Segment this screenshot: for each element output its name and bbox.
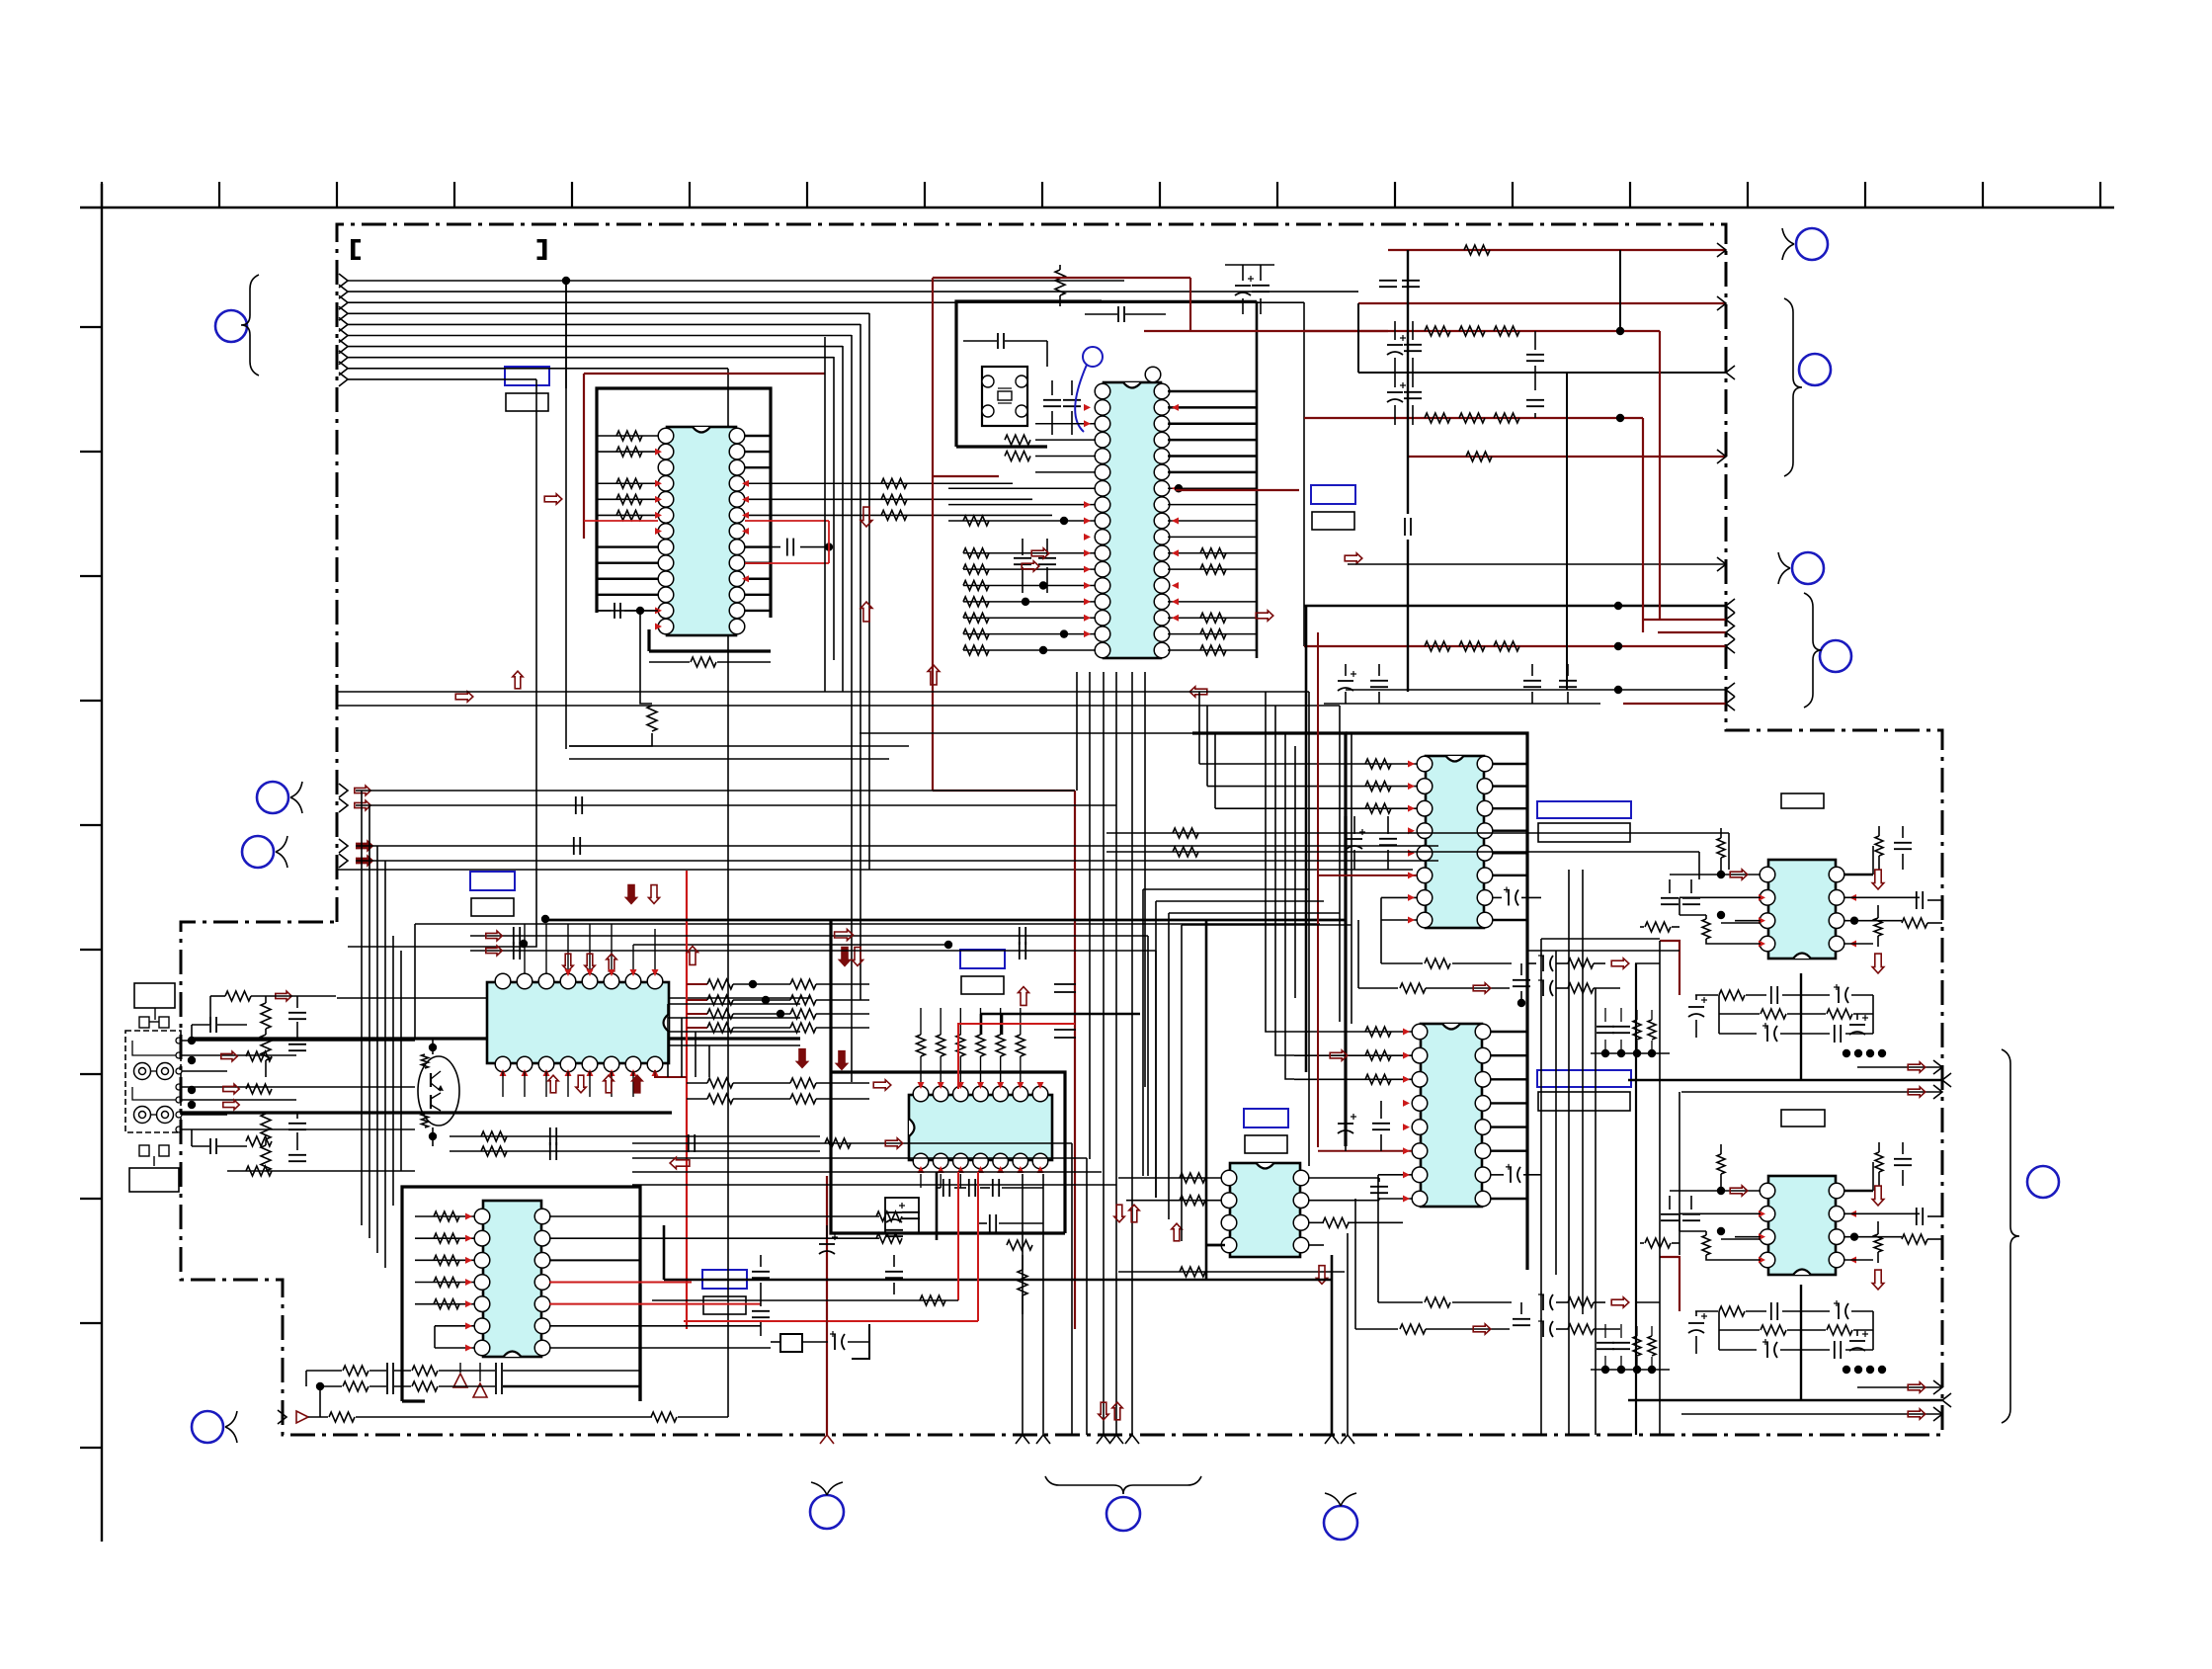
page ref circle G (right 3) xyxy=(1792,552,1824,584)
label IC4 xyxy=(960,950,1005,968)
resistor rows right of IC2 low xyxy=(1200,548,1226,558)
input stubs left-mid xyxy=(339,784,348,797)
blue hook wire xyxy=(1083,347,1103,367)
IC6 output chain xyxy=(1381,962,1423,964)
mid-right cap bank xyxy=(1597,1026,1614,1028)
page ref circle E (right 1) xyxy=(1796,228,1828,260)
IC4 bottom stubs xyxy=(920,1174,922,1188)
dots on IC2 pins xyxy=(1175,484,1183,492)
main thick audio bus xyxy=(193,1037,800,1040)
mid-right verticals xyxy=(1540,939,1542,1435)
IC5 right wires xyxy=(549,1215,879,1217)
arrows below IC3 xyxy=(548,1075,558,1093)
right output terminals lower xyxy=(1857,1386,1942,1388)
pin marks IC2 right xyxy=(1172,404,1179,411)
IC2 right wires xyxy=(1168,390,1257,392)
IC4 pin marks xyxy=(918,1082,925,1089)
servo IC U3 xyxy=(487,982,669,1063)
upper-right harness to opamps xyxy=(1106,832,1729,834)
caps right of IC5 xyxy=(752,1271,770,1273)
IC2 right bus vertical xyxy=(1256,301,1259,658)
board outline (dash-dot) xyxy=(181,224,1942,1435)
IC3 right red feed xyxy=(686,871,688,1329)
IC7 feed verticals xyxy=(1266,692,1294,1032)
IC3 pin marks xyxy=(565,969,572,976)
IC3 top wires xyxy=(524,924,526,974)
label IC10 (black) xyxy=(1781,1110,1825,1127)
page ref circle D (left bottom) xyxy=(192,1411,223,1443)
thick vertical to bottom xyxy=(1331,1255,1334,1435)
dot rows under op-amps xyxy=(1843,1049,1850,1057)
page ref circle K (bottom 2) xyxy=(1106,1497,1140,1531)
label IC7 xyxy=(1537,1070,1631,1087)
IC5 pin marks left xyxy=(465,1213,472,1220)
audio IC U6 xyxy=(1426,756,1484,928)
IC8 feed verticals xyxy=(1142,889,1144,1176)
red tri arrows below IC5 xyxy=(453,1374,467,1387)
IC2 bottom drop bundle xyxy=(1089,672,1091,1159)
IC5 left wires xyxy=(415,1215,474,1217)
wire bus top-left xyxy=(348,280,1124,282)
caps left of IC7 cluster xyxy=(1338,1123,1353,1125)
IC6 bus rectangle xyxy=(1192,733,1346,1146)
IC6 pin marks left xyxy=(1408,761,1415,768)
IC7 output chain xyxy=(1378,1301,1423,1303)
page ref circle B (left mid 1) xyxy=(257,782,288,813)
DSP IC U2 xyxy=(1104,382,1161,658)
IC5 bus rectangle xyxy=(402,1187,640,1401)
ADC IC U5 xyxy=(483,1201,541,1357)
IC2 left wires xyxy=(1035,423,1095,425)
red wire into IC4 xyxy=(958,1024,1075,1089)
center horizontal runs xyxy=(337,691,1309,693)
page ref circle I (far right) xyxy=(2027,1166,2059,1198)
page ref circle L (bottom 3) xyxy=(1324,1506,1357,1540)
caps near crystal xyxy=(997,333,999,349)
op-amp U10 cluster xyxy=(1768,1176,1836,1275)
resistors right of IC1 xyxy=(881,478,907,488)
connector feed dots xyxy=(188,1037,196,1044)
page top ruler xyxy=(80,207,2114,209)
page ref circle C (left mid 2) xyxy=(242,836,274,868)
left small box top xyxy=(134,983,175,1008)
label IC9 (black) xyxy=(1781,793,1824,808)
IC7 pin marks left xyxy=(1403,1029,1410,1036)
op-IC U1 xyxy=(667,427,736,635)
caps left of IC6 cluster xyxy=(1347,838,1362,840)
capacitor below IC1 xyxy=(614,603,615,619)
electrolytic caps top-right xyxy=(1387,344,1403,346)
page ref circle F (right 2) xyxy=(1799,354,1831,385)
pin marks IC2 left xyxy=(1084,404,1091,411)
rows below IC4 xyxy=(632,1142,1072,1144)
resistor rows left of IC2 low xyxy=(963,548,989,558)
IC4 top resistor column xyxy=(917,1035,926,1056)
left-mid long horizontals xyxy=(356,790,1075,792)
label IC3 xyxy=(470,872,515,890)
center vertical runs xyxy=(1103,672,1105,1435)
left small box bottom xyxy=(139,1145,149,1156)
label X1 area xyxy=(1311,485,1355,504)
caps cluster left of IC2 xyxy=(1014,557,1031,559)
red vertical bottom-left xyxy=(826,1176,828,1435)
thick bus above IC4 xyxy=(546,919,1346,922)
rows below transistor area xyxy=(450,1135,820,1137)
IC1 bus rectangle xyxy=(597,388,771,618)
left vertical harness xyxy=(361,791,363,1225)
crystal sub-block xyxy=(956,301,1102,447)
transistor pair Q1 Q2 xyxy=(418,1056,459,1126)
input stub bottom-left xyxy=(278,1410,287,1424)
bottom border wire terminals xyxy=(1016,1435,1029,1444)
xtal sub right of IC5 xyxy=(780,1334,802,1352)
resistor below IC1 xyxy=(691,657,716,667)
red wires to IC6 IC7 xyxy=(1317,632,1319,1147)
connector wires xyxy=(182,1040,415,1042)
IC3 bottom wires xyxy=(502,1071,504,1097)
red arrows near IC1 xyxy=(544,494,562,504)
page left ruler xyxy=(101,184,103,1542)
IC6 right wires xyxy=(1492,763,1527,765)
DAC IC U4 xyxy=(909,1095,1052,1160)
mute IC U8 xyxy=(1230,1163,1300,1257)
long verticals from top bundle xyxy=(565,281,567,749)
capacitor right of IC1 xyxy=(786,539,788,556)
IC7 right wires xyxy=(1490,1031,1527,1033)
audio IC U7 xyxy=(1421,1024,1482,1207)
red wires IC2 area xyxy=(933,277,1190,279)
center rows above IC4 xyxy=(626,885,637,904)
label IC5 xyxy=(702,1270,747,1289)
wire vertical drops center xyxy=(565,281,567,388)
right output terminals upper xyxy=(1857,1066,1942,1068)
label IC8 xyxy=(1244,1109,1288,1127)
connector input stubs top-left xyxy=(339,274,348,288)
bottom RC row top-right section xyxy=(1338,680,1353,682)
IC4 bus rectangle xyxy=(831,920,1065,1233)
bottom-left RC rows xyxy=(343,1366,369,1376)
page ref circle J (bottom 1) xyxy=(810,1495,844,1529)
page ref circle A (left top) xyxy=(215,310,247,342)
caps below IC4 xyxy=(942,1179,944,1197)
left connector (RCA jacks) xyxy=(125,1031,181,1132)
thick drop from mute rail xyxy=(1305,606,1308,1072)
top-right series resistors xyxy=(1425,326,1450,336)
red arrows IC2 area xyxy=(1031,548,1049,558)
page ref circle H (right 4) xyxy=(1820,640,1851,672)
section title brackets xyxy=(351,239,547,260)
red loop IC1 xyxy=(584,373,825,375)
RC ladder near connector xyxy=(261,1003,271,1029)
caps top corner xyxy=(1235,285,1251,287)
label IC1 xyxy=(505,367,549,385)
top-right supply rails xyxy=(1388,249,1726,251)
resistors left of IC1 xyxy=(616,431,642,441)
IC8 wires xyxy=(1118,1177,1222,1179)
pin marks IC1 left xyxy=(655,449,662,456)
IC6 left wires xyxy=(1199,763,1417,765)
red verticals below IC4 xyxy=(957,1172,959,1300)
IC3 right resistor rows xyxy=(707,979,733,989)
op-amp U9 cluster xyxy=(1768,860,1836,959)
thick ground drop at IC8 xyxy=(1205,920,1208,1280)
IC7 left wires xyxy=(1294,1031,1412,1033)
mid-right cap bank lower xyxy=(1597,1342,1614,1344)
pin marks IC1 right xyxy=(742,480,749,487)
top-right vertical feeds xyxy=(1407,250,1409,514)
red vertical center xyxy=(933,790,1075,792)
label IC6 xyxy=(1537,801,1631,818)
